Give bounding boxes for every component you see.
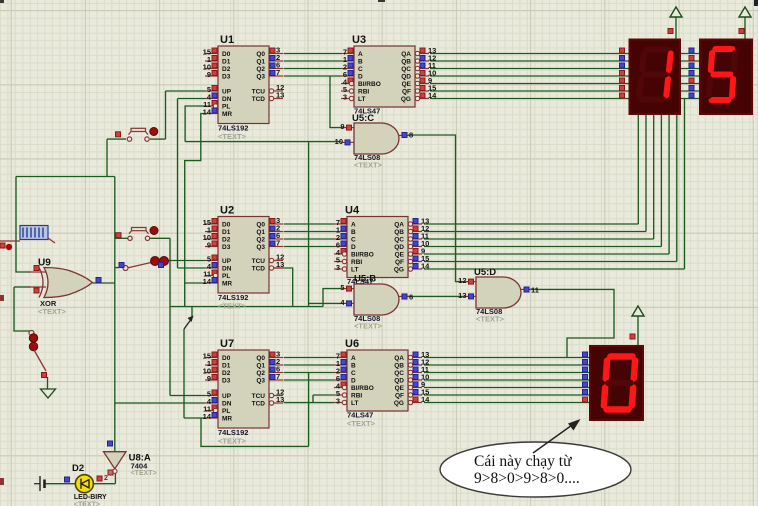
svg-text:QA: QA [401,51,411,58]
svg-text:9>8>0>9>8>0....: 9>8>0>9>8>0.... [474,470,580,487]
svg-text:C: C [351,237,356,244]
svg-text:D1: D1 [222,59,231,66]
svg-text:UP: UP [222,393,232,400]
svg-text:QB: QB [401,59,411,66]
svg-text:<TEXT>: <TEXT> [347,419,376,428]
svg-text:QE: QE [402,81,412,88]
svg-text:QG: QG [394,400,404,407]
svg-text:14: 14 [421,395,430,404]
svg-text:<TEXT>: <TEXT> [218,132,247,141]
svg-text:RBI: RBI [351,259,362,266]
svg-text:TCU: TCU [252,393,266,400]
svg-text:QD: QD [401,74,411,81]
svg-text:LED-BIRY: LED-BIRY [74,494,107,501]
svg-text:14: 14 [421,262,430,271]
svg-text:9: 9 [207,374,211,383]
svg-text:<TEXT>: <TEXT> [218,302,247,311]
svg-text:BI/RBO: BI/RBO [351,385,374,392]
svg-text:11: 11 [531,286,539,295]
svg-text:2: 2 [104,475,108,482]
svg-text:D: D [351,244,356,251]
svg-text:QG: QG [401,96,411,103]
svg-text:RBI: RBI [351,393,362,400]
svg-text:7: 7 [276,372,280,381]
svg-text:TCD: TCD [252,266,266,273]
svg-text:10: 10 [335,137,343,146]
svg-text:B: B [351,363,356,370]
svg-text:A: A [351,355,356,362]
svg-text:D: D [351,378,356,385]
svg-text:Q3: Q3 [256,244,265,251]
svg-text:5: 5 [340,283,344,292]
svg-text:Cái này chạy từ: Cái này chạy từ [474,453,572,470]
svg-text:MR: MR [222,416,232,423]
svg-text:Q2: Q2 [256,66,265,73]
svg-text:QE: QE [395,252,405,259]
svg-text:D3: D3 [222,74,231,81]
svg-text:13: 13 [276,260,284,269]
svg-text:U5:B: U5:B [354,274,376,285]
svg-text:UP: UP [222,258,232,265]
svg-text:QF: QF [395,393,404,400]
svg-text:QE: QE [395,385,405,392]
svg-text:D1: D1 [222,229,231,236]
svg-text:13: 13 [276,91,284,100]
svg-text:PL: PL [222,408,230,415]
svg-text:U6: U6 [345,338,359,350]
svg-text:LT: LT [351,267,358,274]
svg-text:U3: U3 [352,34,366,46]
svg-text:3: 3 [336,397,340,406]
svg-text:12: 12 [458,276,466,285]
svg-text:<TEXT>: <TEXT> [131,470,157,477]
svg-text:U9: U9 [38,258,51,269]
svg-text:QA: QA [394,355,404,362]
svg-text:TCD: TCD [252,96,266,103]
svg-text:QD: QD [394,378,404,385]
svg-text:QA: QA [394,222,404,229]
svg-text:LT: LT [358,96,365,103]
svg-text:U4: U4 [345,205,360,217]
svg-text:RBI: RBI [358,89,369,96]
svg-text:Q1: Q1 [256,363,265,370]
svg-text:3: 3 [336,263,340,272]
svg-text:TCD: TCD [252,401,266,408]
svg-text:D2: D2 [222,66,231,73]
svg-text:13: 13 [458,291,466,300]
svg-text:14: 14 [203,108,212,117]
svg-text:QD: QD [394,244,404,251]
svg-text:14: 14 [203,412,212,421]
svg-text:D: D [358,74,363,81]
svg-text:Q3: Q3 [256,378,265,385]
svg-text:B: B [351,229,356,236]
svg-text:D0: D0 [222,355,231,362]
svg-text:QF: QF [395,259,404,266]
svg-text:PL: PL [222,273,230,280]
svg-text:BI/RBO: BI/RBO [358,81,381,88]
svg-text:QB: QB [394,363,404,370]
svg-text:8: 8 [409,131,413,140]
svg-text:<TEXT>: <TEXT> [354,161,383,170]
svg-text:9: 9 [207,241,211,250]
svg-text:PL: PL [222,104,230,111]
svg-text:9: 9 [340,122,344,131]
svg-text:U1: U1 [220,34,234,46]
svg-text:DN: DN [222,401,232,408]
svg-text:DN: DN [222,96,232,103]
svg-text:6: 6 [409,293,413,302]
svg-text:Q0: Q0 [256,222,265,229]
svg-text:Q1: Q1 [256,59,265,66]
svg-text:<TEXT>: <TEXT> [38,307,67,316]
svg-text:<TEXT>: <TEXT> [476,315,505,324]
svg-text:14: 14 [203,277,212,286]
svg-text:<TEXT>: <TEXT> [74,502,100,506]
svg-text:QC: QC [394,237,404,244]
svg-text:D3: D3 [222,244,231,251]
svg-text:C: C [358,66,363,73]
svg-text:14: 14 [428,91,437,100]
svg-text:Q2: Q2 [256,370,265,377]
svg-text:C: C [351,370,356,377]
svg-text:MR: MR [222,281,232,288]
svg-text:Q2: Q2 [256,237,265,244]
svg-text:3: 3 [343,93,347,102]
svg-text:D2: D2 [222,237,231,244]
svg-text:TCU: TCU [252,89,266,96]
svg-text:D3: D3 [222,378,231,385]
svg-text:<TEXT>: <TEXT> [218,437,247,446]
svg-text:Q3: Q3 [256,74,265,81]
svg-text:13: 13 [276,395,284,404]
svg-text:Q1: Q1 [256,229,265,236]
svg-text:DN: DN [222,266,232,273]
svg-text:D0: D0 [222,222,231,229]
svg-text:A: A [358,51,363,58]
svg-text:QC: QC [394,370,404,377]
svg-text:D0: D0 [222,51,231,58]
svg-text:B: B [358,59,363,66]
svg-text:U5:D: U5:D [474,267,496,278]
svg-text:D2: D2 [222,370,231,377]
svg-text:MR: MR [222,111,232,118]
svg-text:U2: U2 [220,205,234,217]
svg-text:7: 7 [276,68,280,77]
svg-text:Q0: Q0 [256,51,265,58]
svg-text:QG: QG [394,267,404,274]
svg-text:LT: LT [351,400,358,407]
svg-text:<TEXT>: <TEXT> [354,322,383,331]
svg-text:U5:C: U5:C [352,113,374,124]
svg-text:9: 9 [207,70,211,79]
svg-text:BI/RBO: BI/RBO [351,252,374,259]
svg-text:QF: QF [402,89,411,96]
svg-text:U7: U7 [220,338,234,350]
svg-text:TCU: TCU [252,258,266,265]
svg-text:UP: UP [222,89,232,96]
svg-text:QB: QB [394,229,404,236]
svg-text:QC: QC [401,66,411,73]
svg-text:D1: D1 [222,363,231,370]
svg-text:A: A [351,222,356,229]
svg-text:D2: D2 [72,463,84,474]
svg-text:Q0: Q0 [256,355,265,362]
svg-text:7: 7 [276,239,280,248]
